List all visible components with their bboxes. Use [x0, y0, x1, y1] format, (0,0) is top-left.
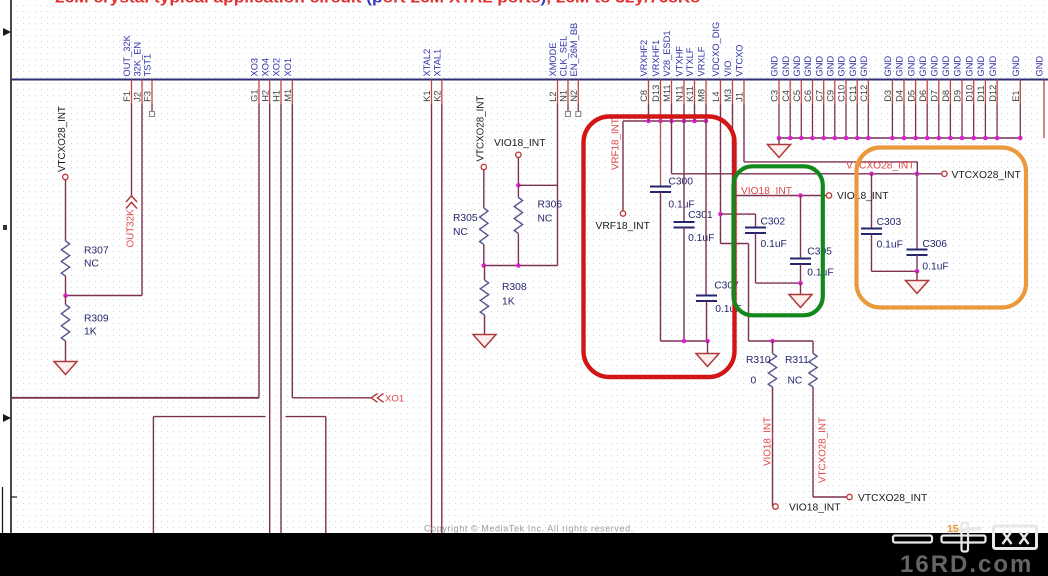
terminal VIO18_INT (mid): [516, 152, 521, 157]
resistor R310: [746, 341, 777, 387]
svg-text:VRXLF: VRXLF: [697, 46, 707, 76]
wire C301 to rail: [683, 228, 685, 342]
pin L2 (XMODE): [548, 42, 558, 104]
svg-text:CLK_SEL: CLK_SEL: [559, 36, 569, 77]
svg-text:C12: C12: [859, 85, 869, 102]
junction: [995, 136, 1000, 141]
pin D6 (GND): [918, 56, 928, 138]
pin M3 (VIO): [723, 60, 733, 104]
svg-text:VIO18_INT: VIO18_INT: [763, 417, 774, 466]
svg-text:D6: D6: [918, 90, 928, 102]
wire crystal arm right: [286, 416, 326, 418]
pin K11 (VTXLF): [685, 47, 695, 104]
svg-text:VTCXO28_INT: VTCXO28_INT: [817, 417, 828, 483]
pin C4 (GND): [781, 56, 791, 138]
svg-text:XO4: XO4: [260, 58, 270, 77]
junction: [866, 136, 871, 141]
svg-text:GND: GND: [964, 56, 974, 77]
junction C305 ground node: [798, 281, 803, 286]
junction: [682, 119, 687, 124]
pin C7 (GND): [814, 56, 824, 138]
svg-text:K11: K11: [685, 86, 695, 102]
junction: [902, 136, 907, 141]
wire cap ground rail: [661, 340, 708, 342]
pin D8 (GND): [941, 56, 951, 138]
pin L4 (VDCXO_DIG): [711, 22, 721, 104]
svg-text:GND: GND: [814, 56, 824, 77]
svg-text:M11: M11: [662, 84, 672, 101]
junction R310: [770, 339, 775, 344]
svg-text:L4: L4: [711, 91, 721, 101]
pin D12 (GND): [988, 56, 998, 138]
svg-text:GND: GND: [918, 56, 928, 77]
svg-text:C11: C11: [848, 85, 858, 101]
wire K1/XTAL2 down: [431, 104, 433, 533]
wire crystal left leg: [152, 417, 154, 533]
svg-text:0.1uF: 0.1uF: [922, 262, 948, 273]
svg-text:1K: 1K: [84, 327, 97, 338]
svg-text:16RD.com: 16RD.com: [900, 551, 1033, 576]
svg-text:C303: C303: [877, 217, 902, 228]
svg-text:VTXHF: VTXHF: [675, 46, 685, 77]
wire G1/XO3 down: [258, 104, 260, 398]
svg-text:GND: GND: [953, 56, 963, 77]
svg-text:GND: GND: [803, 56, 813, 77]
wire C8 stub: [648, 104, 650, 121]
svg-text:GND: GND: [837, 56, 847, 77]
svg-text:VRF18_INT: VRF18_INT: [610, 118, 621, 170]
svg-text:D13: D13: [651, 85, 661, 102]
svg-text:VIO18_INT: VIO18_INT: [494, 138, 546, 149]
svg-text:GND: GND: [848, 56, 858, 77]
ground (VRF18 caps): [696, 354, 719, 367]
junction: [705, 339, 710, 344]
junction: [646, 119, 651, 124]
pin D5 (GND): [906, 56, 916, 138]
off-page connector OUT32K: [126, 196, 137, 209]
svg-text:H2: H2: [260, 90, 270, 102]
wire R306 to node: [517, 234, 519, 266]
junction C306 tap: [915, 172, 920, 177]
svg-text:0.1uF: 0.1uF: [877, 239, 903, 250]
svg-text:F1: F1: [122, 91, 132, 102]
pin C9 (GND): [826, 56, 836, 138]
svg-text:GND: GND: [883, 56, 893, 77]
pin C10 (GND): [837, 56, 847, 138]
junction: [971, 136, 976, 141]
wire M11 down: [671, 104, 673, 174]
pin D4 (GND): [895, 56, 905, 138]
svg-text:VTCXO: VTCXO: [735, 44, 745, 76]
junction: [777, 136, 782, 141]
wire C302 stub: [755, 214, 757, 227]
junction: [704, 119, 709, 124]
pin C12 (GND): [859, 56, 869, 138]
svg-text:M8: M8: [697, 89, 707, 102]
svg-text:D9: D9: [953, 90, 963, 102]
svg-text:32K_EN: 32K_EN: [133, 42, 143, 77]
wire K11 stub: [694, 104, 696, 121]
svg-text:GND: GND: [781, 56, 791, 77]
svg-text:0.1uF: 0.1uF: [688, 233, 714, 244]
wire R310 down: [772, 387, 774, 507]
pin K2 (XTAL1): [433, 49, 443, 104]
svg-text:C8: C8: [639, 90, 649, 102]
svg-text:M1: M1: [283, 89, 293, 102]
pin J2 (32K_EN): [133, 42, 143, 104]
pin D3 (GND): [883, 56, 893, 138]
svg-text:XTAL1: XTAL1: [433, 49, 443, 77]
wire XO1 to off-page: [292, 397, 371, 399]
pin D11 (GND): [976, 56, 986, 138]
svg-text:C7: C7: [814, 90, 824, 102]
resistor R305: [453, 208, 488, 245]
svg-text:VRF18_INT: VRF18_INT: [596, 221, 651, 232]
svg-text:GND: GND: [1011, 56, 1021, 77]
wire C302 to C305 node: [756, 282, 801, 284]
svg-text:F3: F3: [143, 91, 153, 102]
pin G1 (XO3): [250, 58, 260, 104]
wire branch to L2: [518, 184, 557, 186]
wire VTCXO28 to R305: [483, 170, 485, 208]
junction: [799, 136, 804, 141]
no-connect F3: [150, 112, 155, 117]
svg-text:K2: K2: [433, 90, 443, 101]
svg-text:XO3: XO3: [250, 58, 260, 77]
svg-text:R306: R306: [538, 199, 563, 210]
ground (C303/C306): [906, 281, 929, 294]
wire J1 drop: [916, 162, 918, 174]
pin M1 (XO1): [283, 58, 293, 104]
junction: [692, 119, 697, 124]
wire R311 down: [812, 387, 814, 497]
junction: [948, 136, 953, 141]
highlight box VRF18 (red): [584, 117, 735, 378]
junction: [1018, 136, 1023, 141]
wire F3 stub: [151, 104, 153, 112]
pin C5 (GND): [792, 56, 802, 138]
wire C305 stub: [800, 196, 802, 259]
bus wire (top horizontal): [11, 79, 1048, 81]
ground (GND rail): [768, 138, 791, 158]
svg-text:VTCXO28_INT: VTCXO28_INT: [57, 106, 68, 172]
wire D13 to C300: [660, 104, 662, 187]
svg-text:GND: GND: [895, 56, 905, 77]
svg-text:VIO18_INT: VIO18_INT: [789, 502, 841, 513]
terminal VTCXO28_INT (left): [63, 174, 68, 179]
wire H2/XO4 down: [269, 104, 271, 533]
svg-text:J2: J2: [133, 92, 143, 102]
svg-text:OUT_32K: OUT_32K: [122, 34, 132, 76]
junction: [810, 136, 815, 141]
watermark 一牛网: [893, 523, 1037, 552]
junction: [682, 339, 687, 344]
svg-text:NC: NC: [538, 214, 553, 225]
svg-text:VTCXO28_INT: VTCXO28_INT: [475, 96, 486, 162]
wire to ground: [800, 283, 802, 294]
wire crystal arm left: [153, 416, 265, 418]
wire J2 down: [141, 104, 143, 296]
wire strap node: [484, 265, 558, 267]
no-connect N1: [566, 112, 571, 117]
wire VTCXO28 horizontal: [672, 173, 942, 175]
svg-text:GND: GND: [770, 56, 780, 77]
svg-text:OUT32K: OUT32K: [126, 209, 137, 248]
wire VIO18 to R306: [517, 158, 519, 198]
svg-text:TST1: TST1: [143, 54, 153, 77]
off-page connector XO1: [371, 394, 383, 403]
wire R305 to node: [483, 245, 485, 266]
wire R308 to ground: [484, 315, 486, 335]
pin F3 (TST1): [143, 54, 153, 104]
capacitor C303: [861, 217, 903, 250]
pin D7 (GND): [930, 56, 940, 138]
svg-text:D10: D10: [964, 85, 974, 102]
wire VRF18 dot-row: [623, 120, 706, 122]
svg-text:VIO: VIO: [723, 60, 733, 76]
svg-text:C306: C306: [922, 239, 947, 250]
terminal VTCXO28_INT (mid): [481, 164, 486, 169]
capacitor C307: [696, 281, 742, 316]
junction: [983, 136, 988, 141]
svg-text:VRXHF2: VRXHF2: [639, 40, 649, 77]
wire M1/XO1 down: [291, 104, 293, 398]
wire R307 to node: [65, 276, 67, 296]
svg-text:GND: GND: [826, 56, 836, 77]
svg-text:GND: GND: [930, 56, 940, 77]
junction L4/C302: [718, 212, 723, 217]
svg-text:C305: C305: [807, 247, 832, 258]
svg-text:VIO18_INT: VIO18_INT: [837, 191, 889, 202]
svg-text:J1: J1: [735, 92, 745, 102]
pin M11 (V28_ESD1): [662, 31, 672, 105]
wire L4 drop: [748, 244, 750, 342]
svg-text:V28_ESD1: V28_ESD1: [662, 31, 672, 77]
svg-text:C302: C302: [761, 216, 786, 227]
svg-text:D12: D12: [988, 85, 998, 102]
resistor R311: [785, 341, 817, 387]
wire M8 to C307: [705, 104, 707, 296]
terminal VTCXO28_INT (right): [942, 171, 947, 176]
wire C303 stub: [871, 174, 873, 229]
svg-text:G1: G1: [250, 89, 260, 101]
svg-text:XMODE: XMODE: [548, 42, 558, 76]
svg-text:D5: D5: [906, 90, 916, 102]
pin D9 (GND): [953, 56, 963, 138]
highlight box VIO18 (green): [734, 166, 823, 315]
junction: [844, 136, 849, 141]
junction C305 tap: [798, 193, 803, 198]
svg-text:C9: C9: [826, 90, 836, 102]
wire L4 jog: [721, 243, 749, 245]
junction: [658, 119, 663, 124]
capacitor C305: [790, 247, 834, 279]
svg-text:D11: D11: [976, 85, 986, 101]
wire to ground: [916, 271, 918, 280]
svg-text:D7: D7: [930, 90, 940, 102]
svg-text:XTAL2: XTAL2: [422, 49, 432, 77]
wire terminal to R307: [65, 180, 67, 241]
svg-text:C5: C5: [792, 90, 802, 102]
capacitor C300: [650, 176, 695, 210]
svg-text:GND: GND: [988, 56, 998, 77]
wire J1 horizontal: [744, 161, 917, 163]
wire R309 to ground: [65, 341, 67, 362]
junction: [890, 136, 895, 141]
pin M8 (VRXLF): [697, 46, 707, 104]
svg-text:NC: NC: [788, 376, 803, 387]
svg-text:GND: GND: [859, 56, 869, 77]
svg-text:D4: D4: [895, 90, 905, 102]
svg-text:GND: GND: [906, 56, 916, 77]
junction C303 tap: [869, 172, 874, 177]
wire R310/R311 rail: [749, 340, 814, 342]
svg-text:15: 15: [947, 523, 959, 535]
wire N1 stub: [567, 104, 569, 112]
svg-text:C300: C300: [668, 176, 693, 187]
junction: [833, 136, 838, 141]
svg-text:0.1uF: 0.1uF: [807, 268, 833, 279]
svg-text:R310: R310: [746, 355, 771, 366]
svg-text:XO1: XO1: [283, 58, 293, 77]
svg-text:0.1uF: 0.1uF: [761, 239, 787, 250]
svg-text:C4: C4: [781, 90, 791, 102]
wire L2 down: [557, 104, 559, 266]
junction: [788, 136, 793, 141]
pin J1 (VTCXO): [735, 44, 745, 104]
resistor R309: [61, 296, 109, 342]
svg-text:GND: GND: [1035, 56, 1045, 77]
pin C6 (GND): [803, 56, 813, 138]
svg-text:XO2: XO2: [272, 58, 282, 77]
junction C306 ground node: [915, 269, 920, 274]
wire VIO18 horizontal: [733, 195, 827, 197]
svg-text:N2: N2: [569, 90, 579, 102]
svg-text:26M crystal typical applicatio: 26M crystal typical application circuit …: [55, 0, 700, 7]
wire crystal right leg: [325, 417, 327, 533]
svg-text:D3: D3: [883, 90, 893, 102]
ground (R309): [54, 362, 77, 375]
wire C307 to rail: [706, 301, 708, 341]
pin F1 (OUT_32K): [122, 34, 132, 104]
junction: [821, 136, 826, 141]
wire N11 to C301: [683, 104, 685, 222]
junction: [855, 136, 860, 141]
capacitor C302: [745, 216, 787, 250]
svg-text:GND: GND: [976, 56, 986, 77]
wire F1 to off-page: [131, 104, 133, 196]
wire rail to ground: [707, 341, 709, 354]
pin D10 (GND): [964, 56, 974, 138]
svg-text:L2: L2: [548, 91, 558, 101]
terminal VIO18_INT (right): [826, 193, 831, 198]
junction R306 node: [516, 263, 521, 268]
junction node R307/R309: [63, 293, 68, 298]
svg-text:R311: R311: [785, 355, 809, 366]
pin N2 (EN_26M_BB): [569, 23, 579, 104]
pin E1 (GND): [1011, 56, 1021, 138]
pin K1 (XTAL2): [422, 49, 432, 104]
svg-text:C10: C10: [837, 85, 847, 102]
svg-text:NC: NC: [84, 259, 99, 270]
wire C306 down: [916, 255, 918, 271]
svg-text:0.1uF: 0.1uF: [668, 199, 694, 210]
no-connect N2: [576, 112, 581, 117]
svg-text:EN_26M_BB: EN_26M_BB: [569, 23, 579, 77]
svg-text:R308: R308: [502, 282, 527, 293]
wire M3 down: [732, 104, 734, 196]
svg-text:VTCXO28_INT: VTCXO28_INT: [858, 493, 928, 504]
wire C305 down: [800, 264, 802, 283]
junction: [960, 136, 965, 141]
wire N2 stub: [577, 104, 579, 112]
terminal VRF18_INT: [620, 211, 625, 216]
pin (GND, cut off at right edge): [1035, 56, 1045, 138]
svg-text:Copyright © MediaTek Inc. All: Copyright © MediaTek Inc. All rights res…: [424, 524, 634, 534]
svg-text:K1: K1: [422, 90, 432, 101]
resistor R307: [61, 241, 109, 276]
pin N11 (VTXHF): [675, 46, 685, 104]
pin H2 (XO4): [260, 58, 270, 104]
capacitor C301: [674, 210, 715, 244]
terminal VIO18_INT (bottom): [773, 504, 778, 509]
svg-text:N1: N1: [559, 90, 569, 102]
wire H1/XO2 down: [280, 104, 282, 533]
ground (R308): [473, 335, 496, 348]
svg-text:R309: R309: [84, 314, 109, 325]
pin C11 (GND): [848, 56, 858, 138]
svg-text:VTCXO28_INT: VTCXO28_INT: [952, 170, 1022, 181]
wire K2/XTAL1 down: [441, 104, 443, 533]
svg-text:GND: GND: [941, 56, 951, 77]
svg-text:VTXLF: VTXLF: [685, 47, 695, 76]
svg-text:GND: GND: [792, 56, 802, 77]
svg-text:XO1: XO1: [385, 394, 404, 405]
wire R311 to terminal: [813, 496, 847, 498]
sheet border line: [10, 0, 12, 533]
svg-text:C3: C3: [770, 90, 780, 102]
pin D13 (VRXHF1): [651, 40, 661, 104]
resistor R306: [514, 198, 562, 234]
svg-text:VDCXO_DIG: VDCXO_DIG: [711, 22, 721, 77]
wire L4 down: [720, 104, 722, 244]
svg-text:VIO18_INT: VIO18_INT: [741, 186, 792, 197]
pin C8 (VRXHF2): [639, 40, 649, 104]
ground (C302/C305): [789, 295, 812, 308]
wire C303 down: [871, 234, 873, 271]
wire J2 to R307/R309 node: [66, 295, 143, 297]
GND rail wire: [779, 137, 1020, 139]
svg-text:M3: M3: [723, 89, 733, 102]
svg-text:R305: R305: [453, 213, 478, 224]
highlight box VTCXO28 (orange): [857, 148, 1027, 308]
junction VIO18/L2 branch: [516, 183, 521, 188]
svg-text:C6: C6: [803, 90, 813, 102]
junction: [913, 136, 918, 141]
wire XO3 to left edge: [11, 397, 259, 399]
wire C303 to C306 node: [872, 270, 918, 272]
svg-text:1K: 1K: [502, 296, 515, 307]
junction: [937, 136, 942, 141]
wire C302 down: [755, 233, 757, 283]
svg-text:R307: R307: [84, 246, 109, 257]
junction: [669, 119, 674, 124]
svg-text:NC: NC: [453, 227, 468, 238]
wire C300 to rail: [660, 192, 662, 341]
wire J1 down: [743, 104, 745, 162]
svg-text:VRXHF1: VRXHF1: [651, 40, 661, 77]
svg-text:H1: H1: [272, 90, 282, 102]
